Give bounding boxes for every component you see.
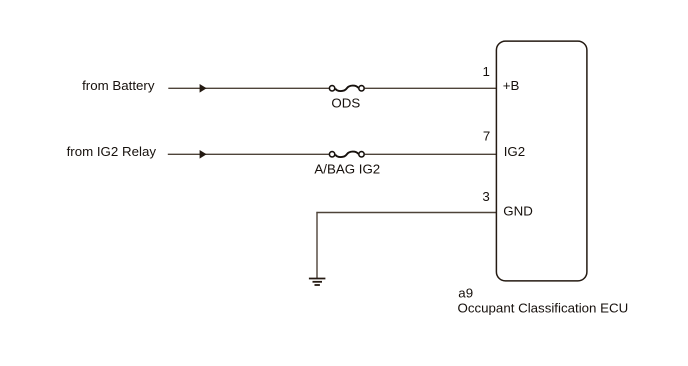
svg-text:IG2: IG2 bbox=[504, 144, 525, 159]
svg-text:Occupant Classification ECU: Occupant Classification ECU bbox=[458, 300, 629, 315]
wire W3a: ground horizontal to ECU pin 3 bbox=[316, 212, 496, 214]
wire W2a: IG2 relay feed to fuse A/BAG IG2 bbox=[168, 153, 329, 155]
ECU box: Occupant Classification ECU U1 bbox=[496, 41, 587, 281]
svg-text:3: 3 bbox=[482, 189, 489, 204]
svg-text:7: 7 bbox=[483, 129, 490, 144]
wire W3b: ground vertical drop bbox=[316, 212, 318, 278]
arrow: flow direction on battery wire bbox=[200, 84, 207, 93]
fuse F2 A/BAG IG2 bbox=[329, 152, 364, 157]
svg-text:a9: a9 bbox=[458, 286, 473, 301]
svg-text:+B: +B bbox=[503, 78, 520, 93]
ground symbol bbox=[309, 279, 326, 286]
svg-text:A/BAG IG2: A/BAG IG2 bbox=[314, 162, 380, 177]
wire W1b: fuse ODS to ECU pin 1 bbox=[365, 87, 497, 89]
fuse F1 ODS bbox=[329, 86, 364, 91]
svg-text:1: 1 bbox=[482, 64, 489, 79]
wire W1a: battery feed to fuse ODS bbox=[168, 87, 329, 89]
arrow: flow direction on IG2 wire bbox=[200, 150, 207, 159]
wire W2b: fuse A/BAG IG2 to ECU pin 7 bbox=[365, 153, 497, 155]
svg-text:GND: GND bbox=[503, 204, 533, 219]
svg-text:from Battery: from Battery bbox=[82, 78, 155, 93]
svg-text:from IG2 Relay: from IG2 Relay bbox=[67, 144, 157, 159]
svg-text:ODS: ODS bbox=[331, 96, 360, 111]
